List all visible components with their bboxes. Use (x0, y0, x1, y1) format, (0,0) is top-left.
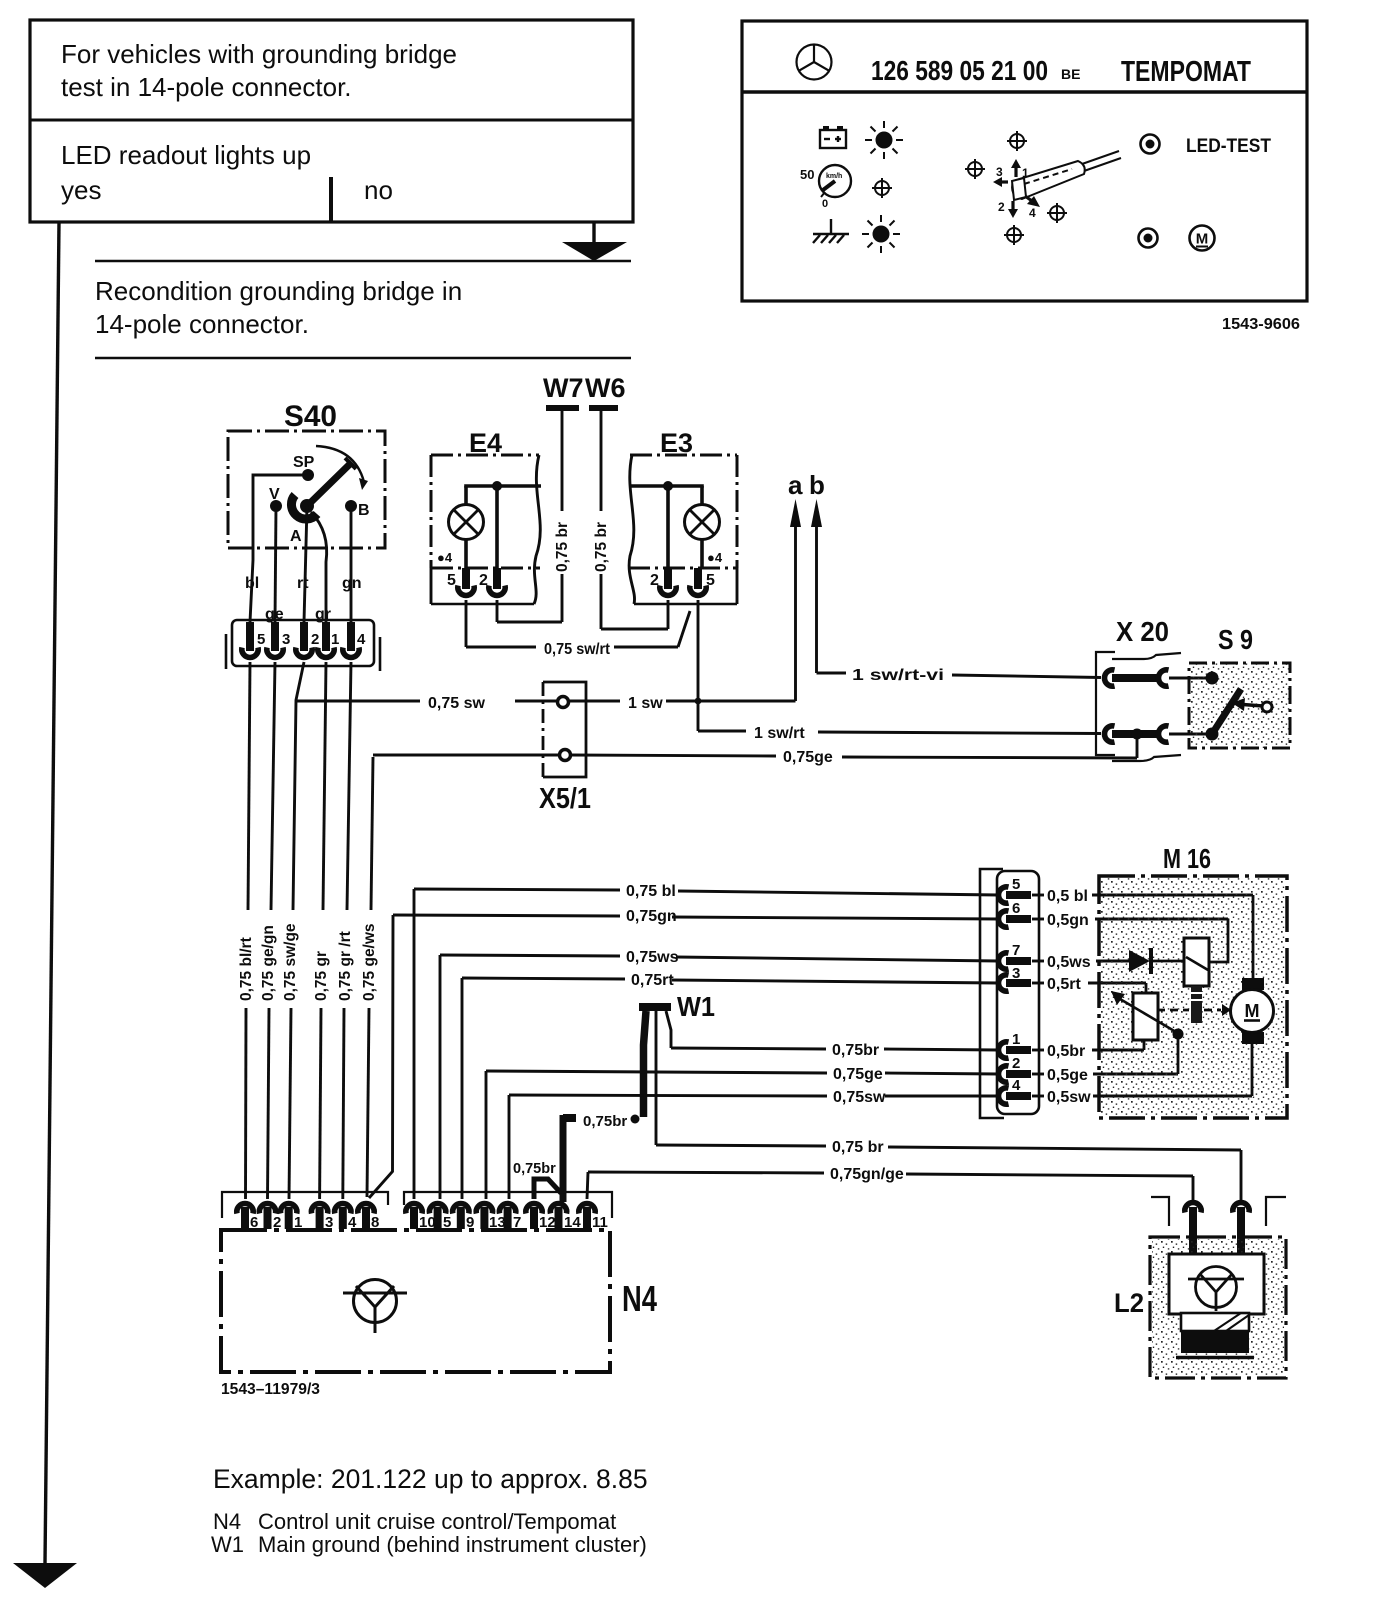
svg-text:0,75 sw/rt: 0,75 sw/rt (544, 641, 611, 658)
node wiper junction (1173, 1029, 1184, 1075)
svg-text:4: 4 (357, 631, 366, 648)
svg-text:0,75 br: 0,75 br (554, 522, 571, 572)
wire 0,75ge from X5/1 to X20 (571, 734, 1138, 766)
svg-text:M: M (1196, 231, 1209, 248)
ground wire W6 (585, 373, 668, 629)
wire 0,75 bl/rt (238, 662, 255, 1199)
wire 0,75 gr (313, 662, 330, 1199)
svg-text:W7: W7 (543, 373, 584, 403)
recondition action block (95, 261, 631, 358)
svg-text:0,75ws: 0,75ws (626, 949, 679, 966)
diode in M16 (1129, 948, 1184, 974)
svg-text:no: no (364, 175, 393, 205)
svg-text:4: 4 (1029, 206, 1036, 220)
connector pin 2 (296, 622, 320, 658)
N4 pin 14 (550, 1204, 581, 1232)
svg-text:B: B (358, 502, 370, 519)
N4 internal symbol (343, 1280, 407, 1334)
svg-text:M 16: M 16 (1163, 843, 1211, 874)
wire M16 sw to motor (1251, 1043, 1254, 1096)
N4 pin 9 (453, 1204, 475, 1232)
svg-text:0,75 ge/gn: 0,75 ge/gn (260, 925, 277, 1001)
wire 0,75 sw/rt between E4 and E3 (466, 611, 690, 658)
svg-text:1 sw/rt: 1 sw/rt (754, 725, 805, 742)
wire E3 lamp to pins (630, 481, 704, 568)
svg-text:126 589 05 21 00: 126 589 05 21 00 (871, 55, 1048, 86)
E4 pin 5 (447, 568, 474, 647)
node a arrow (788, 470, 803, 701)
crosshair circles center group (965, 131, 1067, 245)
N4 pin 5 (429, 1204, 451, 1232)
ground symbol in panel (813, 219, 849, 243)
motor test symbol M (1190, 226, 1215, 251)
svg-text:BE: BE (1061, 66, 1080, 82)
wire 1 sw from X5/1 to node a (569, 695, 796, 712)
strip pin 1 (999, 1031, 1032, 1058)
X20 pin pair bottom (1105, 726, 1207, 742)
svg-text:0: 0 (822, 198, 828, 210)
LED lit symbol bottom (862, 215, 900, 253)
wire S40 A to pin 2 (304, 506, 307, 622)
svg-text:W1: W1 (677, 991, 715, 1022)
control unit N4 (221, 1230, 657, 1372)
svg-text:●4: ●4 (437, 550, 453, 565)
N4 pin 3 (311, 1204, 333, 1232)
switch S9 (1189, 624, 1290, 748)
N4 pin 4 (335, 1204, 357, 1232)
strip pin 3 (999, 965, 1032, 991)
svg-text:0,5ge: 0,5ge (1047, 1067, 1088, 1084)
svg-text:3: 3 (282, 631, 290, 648)
potentiometer in M16 (1111, 991, 1176, 1040)
N4 pin 11 (579, 1204, 608, 1232)
wire 0,5rt (1032, 976, 1146, 993)
svg-text:0,5rt: 0,5rt (1047, 976, 1081, 993)
LED indicator top right (1141, 135, 1160, 154)
wire 0,5gn (1032, 912, 1228, 929)
svg-text:6: 6 (1012, 900, 1020, 917)
wire E4 lamp to pins (464, 481, 541, 568)
svg-text:X 20: X 20 (1116, 616, 1169, 647)
svg-text:2: 2 (998, 200, 1005, 214)
8-pole connector to M16 (980, 869, 1039, 1118)
connector on S40 harness (226, 620, 380, 671)
lamp unit E3 (628, 428, 737, 604)
svg-text:14-pole connector.: 14-pole connector. (95, 309, 309, 339)
wire S40 B to pin 4 (350, 506, 353, 622)
N4 pin 13 (476, 1204, 505, 1232)
svg-text:3: 3 (1012, 965, 1020, 982)
connector pin 4 (343, 622, 366, 658)
svg-text:●4: ●4 (707, 550, 723, 565)
wire 0,75 gr/rt (337, 662, 354, 1199)
strip pin 4 (999, 1077, 1032, 1104)
mechanical link dashed (1157, 1004, 1231, 1016)
connector pin 1 (318, 622, 340, 658)
svg-text:0,75 bl/rt: 0,75 bl/rt (238, 937, 255, 1001)
wire 0,75ws (440, 949, 999, 1199)
N4 pin 8 (358, 1204, 380, 1232)
wire: yes-branch long vertical line (13, 222, 77, 1588)
battery icon (820, 126, 846, 148)
wire 0,5br (1032, 1043, 1144, 1060)
svg-text:test in 14-pole connector.: test in 14-pole connector. (61, 72, 352, 102)
svg-text:0,75 bl: 0,75 bl (626, 883, 676, 900)
mercedes star logo (797, 45, 832, 80)
wire 0,5ws (1032, 954, 1129, 971)
svg-text:TEMPOMAT: TEMPOMAT (1121, 56, 1251, 88)
flowchart box: grounding bridge test (30, 20, 633, 222)
wire 1 sw/rt-vi from node b to X20 (817, 667, 1102, 684)
wire 0,75 ge/ws (361, 757, 378, 1197)
svg-text:1 sw/rt-vi: 1 sw/rt-vi (852, 667, 944, 684)
X20 pin pair top (1105, 670, 1207, 686)
N4 connector housing right (404, 1192, 612, 1218)
svg-text:N4: N4 (622, 1278, 657, 1319)
wire 0,5sw (1032, 1089, 1252, 1106)
svg-text:S 9: S 9 (1218, 624, 1253, 655)
ground point W1 (631, 991, 716, 1124)
N4 pin 1 (281, 1204, 303, 1232)
svg-text:0,75br: 0,75br (583, 1113, 627, 1130)
L2 connector housing (1151, 1197, 1286, 1226)
wire 0,75 bl (414, 883, 999, 1199)
svg-text:0,75 br: 0,75 br (832, 1139, 884, 1156)
strip pin 2 (999, 1055, 1032, 1082)
svg-text:7: 7 (1012, 942, 1020, 959)
svg-text:50: 50 (800, 167, 814, 182)
svg-text:LED readout lights up: LED readout lights up (61, 140, 311, 170)
svg-text:0,75 ge/ws: 0,75 ge/ws (361, 923, 378, 1001)
svg-text:3: 3 (996, 165, 1003, 179)
svg-text:W6: W6 (585, 373, 626, 403)
stalk switch drawing (1012, 151, 1121, 200)
switch S40 (228, 400, 385, 548)
L2 internal symbol (1188, 1267, 1244, 1312)
wire 0,75 sw from S40 to X5/1 (297, 695, 558, 712)
wire M16 gn to relay (1210, 919, 1228, 962)
svg-text:N4Control unit cruise control/: N4Control unit cruise control/Tempomat (213, 1509, 616, 1534)
N4 pin 10 (406, 1204, 436, 1232)
svg-text:0,75gn/ge: 0,75gn/ge (830, 1166, 904, 1183)
svg-text:For vehicles with grounding br: For vehicles with grounding bridge (61, 39, 457, 69)
wire: no-branch down to arrow (562, 222, 627, 261)
connector X5/1 (539, 682, 591, 815)
svg-text:1: 1 (1012, 1031, 1020, 1048)
svg-text:0,75gn: 0,75gn (626, 908, 677, 925)
wire M16 br to potentiometer (1143, 1040, 1146, 1050)
motor M in M16 (1231, 978, 1274, 1044)
svg-text:1: 1 (331, 631, 339, 648)
svg-text:0,75ge: 0,75ge (833, 1066, 883, 1083)
connector X20 (1096, 616, 1181, 761)
svg-text:a: a (788, 470, 803, 500)
lamp unit E4 (431, 428, 540, 604)
L2 pin left (1185, 1203, 1201, 1257)
svg-text:2: 2 (1012, 1055, 1020, 1072)
connector pin 3 (267, 622, 291, 658)
LED lit symbol top (865, 121, 903, 159)
svg-text:S40: S40 (284, 400, 337, 433)
svg-text:4: 4 (1012, 1077, 1021, 1094)
stalk arrows 1,2,3,4 (993, 159, 1040, 220)
N4 connector housing left (222, 1192, 388, 1218)
tempomat tester panel box (742, 21, 1307, 301)
svg-text:Recondition grounding bridge i: Recondition grounding bridge in (95, 276, 462, 306)
wire 0,75 sw/ge (282, 662, 304, 1199)
svg-text:0,75 sw: 0,75 sw (428, 695, 485, 712)
wire 0,5ge (1032, 1067, 1178, 1084)
svg-text:0,75br: 0,75br (513, 1161, 556, 1177)
svg-text:5: 5 (447, 572, 456, 589)
crosshair circle left (872, 178, 892, 198)
svg-text:yes: yes (61, 175, 101, 205)
svg-text:W1Main ground (behind instrume: W1Main ground (behind instrument cluster… (211, 1532, 647, 1557)
svg-text:A: A (290, 528, 302, 545)
E3 pin 5 (690, 568, 715, 701)
svg-text:2: 2 (311, 631, 319, 648)
actuator M16 (1099, 843, 1287, 1118)
svg-text:b: b (809, 470, 825, 500)
svg-text:Example: 201.122 up to approx.: Example: 201.122 up to approx. 8.85 (213, 1464, 648, 1494)
wire 0,75sw to connector pin 4 (509, 1089, 999, 1199)
N4 pin 2 (259, 1204, 281, 1232)
wire 0,75gn (369, 908, 999, 1198)
svg-text:0,5gn: 0,5gn (1047, 912, 1089, 929)
relay coil in M16 (1184, 938, 1209, 986)
svg-text:L2: L2 (1114, 1288, 1144, 1318)
svg-text:X5/1: X5/1 (539, 783, 591, 815)
svg-text:SP: SP (293, 454, 315, 471)
svg-text:0,5br: 0,5br (1047, 1043, 1085, 1060)
svg-text:M: M (1245, 1001, 1260, 1021)
wire 0,75rt (462, 972, 999, 1199)
strip pin 6 (999, 900, 1032, 927)
ground wire W7 (497, 373, 584, 622)
strip pin 5 (999, 876, 1032, 903)
N4 pin 12 (526, 1204, 556, 1232)
svg-text:1: 1 (1022, 166, 1029, 180)
speed sensor L2 (1114, 1237, 1286, 1378)
svg-text:0,75 sw/ge: 0,75 sw/ge (282, 923, 299, 1001)
svg-text:0,75 br: 0,75 br (593, 522, 610, 572)
wire 0,75br N4 pin 12 jumper (513, 1161, 561, 1199)
wire color labels bl ge rt gr gn (245, 575, 362, 623)
N4 pin 7 (499, 1204, 521, 1232)
wire 0,75br W1 to N4 pin 14 (563, 1113, 627, 1202)
solenoid plunger (1189, 986, 1204, 1023)
LED indicator bottom right (1139, 229, 1158, 248)
svg-text:0,75 gr /rt: 0,75 gr /rt (337, 931, 354, 1001)
svg-text:0,5 bl: 0,5 bl (1047, 888, 1088, 905)
L2 coil (1176, 1313, 1254, 1358)
svg-text:1 sw: 1 sw (628, 695, 663, 712)
wire 0,75ge to connector pin 2 (486, 1066, 999, 1199)
svg-text:0,75 gr: 0,75 gr (313, 951, 330, 1001)
wire M16 rt to potentiometer (1145, 983, 1148, 993)
svg-text:0,5sw: 0,5sw (1047, 1089, 1091, 1106)
strip pin 7 (999, 942, 1032, 969)
svg-text:0,75br: 0,75br (832, 1042, 879, 1059)
wire S40 SP to pin 5 (250, 475, 308, 622)
wire S40 lever to pin 1 (311, 512, 327, 622)
wire M16 bl to motor (1252, 895, 1255, 979)
svg-text:0,75sw: 0,75sw (833, 1089, 886, 1106)
svg-text:1543-9606: 1543-9606 (1222, 316, 1300, 333)
wire 1 sw/rt to X20 (698, 701, 1101, 742)
svg-text:0,75ge: 0,75ge (783, 749, 833, 766)
svg-text:5: 5 (257, 631, 265, 648)
svg-text:LED-TEST: LED-TEST (1186, 136, 1271, 157)
svg-text:gn: gn (342, 575, 362, 592)
node b arrow (809, 470, 825, 673)
wire 0,75br W1 to connector pin 1 (666, 1011, 999, 1059)
L2 pin right (1233, 1203, 1249, 1257)
wire 0,75ge left branch to wire ge/ws (373, 754, 560, 757)
wire 0,75 br W1 to L2 (656, 1011, 1241, 1200)
svg-text:km/h: km/h (826, 173, 842, 180)
svg-text:bl: bl (245, 575, 259, 592)
svg-text:1543–11979/3: 1543–11979/3 (221, 1381, 320, 1398)
connector pin 5 (242, 622, 266, 658)
wire 0,75gn/ge N4 pin 11 to L2 (587, 1166, 1193, 1200)
wire S40 V to pin 3 (275, 506, 276, 622)
svg-text:0,75rt: 0,75rt (631, 972, 674, 989)
svg-text:0,5ws: 0,5ws (1047, 954, 1091, 971)
wire 0,5 bl (1032, 888, 1253, 905)
wire 0,75 ge/gn (260, 662, 277, 1199)
svg-text:5: 5 (1012, 876, 1020, 893)
speedometer icon (800, 165, 851, 210)
svg-text:rt: rt (297, 575, 309, 592)
N4 pin 6 (237, 1204, 259, 1232)
E4 pin 2 (479, 568, 505, 622)
E3 pin 2 (650, 568, 676, 629)
